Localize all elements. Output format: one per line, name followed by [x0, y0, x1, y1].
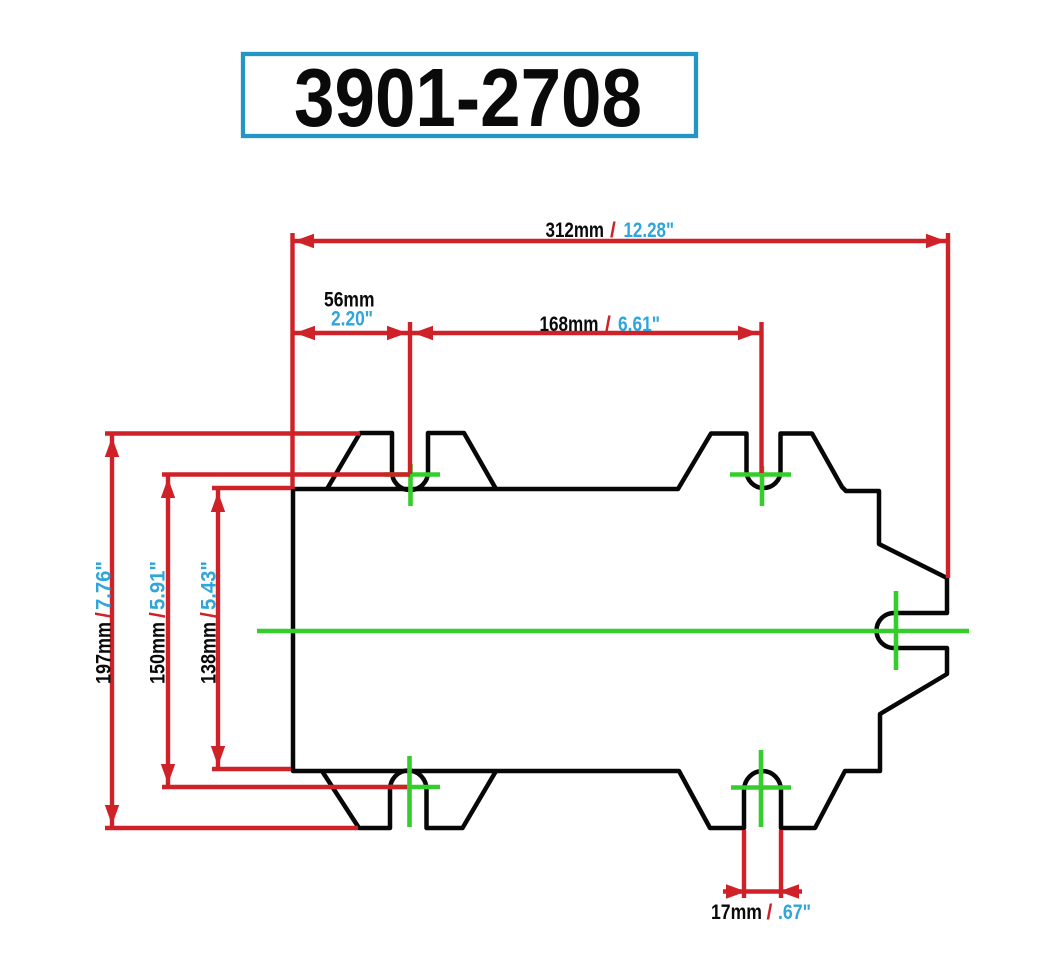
arrow 197 top: [105, 437, 119, 457]
svg-text:/: /: [93, 612, 116, 618]
150 dim vertical: [166, 475, 170, 788]
197 bottom extension: [105, 826, 358, 830]
red arrowheads: [105, 234, 946, 899]
arrow 197 bottom: [105, 805, 119, 825]
dim label 312mm / 12.28": [546, 219, 675, 242]
title box: [243, 54, 696, 136]
dim label 138mm / 5.43" (rotated): [198, 561, 221, 684]
arrow 56 left: [295, 326, 315, 340]
312 left extension vertical: [290, 233, 294, 489]
arrow 168 left: [413, 326, 433, 340]
green cross right notch: [894, 591, 899, 670]
312 dim line: [293, 239, 949, 243]
svg-text:168mm: 168mm: [540, 313, 599, 336]
dim label 197mm / 7.76" (rotated): [93, 561, 116, 684]
svg-text:138mm: 138mm: [198, 622, 221, 684]
svg-text:17mm: 17mm: [711, 901, 762, 924]
17 left extension vertical: [742, 830, 746, 898]
arrow 312 right: [926, 234, 946, 248]
arrow 138 top: [211, 492, 225, 512]
svg-text:2.20": 2.20": [331, 308, 373, 331]
arrow 138 bottom: [211, 746, 225, 766]
svg-text:/: /: [767, 901, 773, 924]
svg-text:.67": .67": [778, 901, 811, 924]
svg-text:150mm: 150mm: [147, 622, 170, 684]
138 top extension: [212, 486, 291, 490]
arrow 168 right: [738, 326, 758, 340]
top-left tab pair: [327, 433, 496, 490]
17 right extension vertical: [779, 830, 783, 898]
56 right extension vertical: [408, 322, 412, 474]
138 bottom extension: [212, 767, 291, 771]
56/168 dim line: [293, 331, 762, 335]
svg-text:312mm: 312mm: [546, 219, 605, 242]
197 top extension: [105, 431, 360, 435]
svg-text:12.28": 12.28": [624, 219, 675, 242]
dim label 150mm / 5.91" (rotated): [147, 561, 170, 684]
arrow 17 right: [779, 884, 799, 898]
138 dim vertical: [216, 488, 220, 769]
arrow 150 bottom: [161, 764, 175, 784]
arrow 312 left: [294, 234, 314, 248]
svg-text:/: /: [610, 219, 616, 242]
arrow 150 top: [161, 478, 175, 498]
green center line: [257, 629, 969, 634]
green cross bottom-right: [731, 750, 791, 827]
svg-text:/: /: [198, 612, 221, 618]
17 dim line: [723, 889, 802, 893]
168 right extension vertical: [759, 322, 763, 473]
svg-text:6.61": 6.61": [618, 313, 660, 336]
green cross top-right: [730, 466, 791, 506]
dim label 56mm 2.20": [324, 289, 375, 331]
150 bottom extension: [162, 785, 407, 789]
svg-text:/: /: [605, 313, 611, 336]
svg-text:5.91": 5.91": [147, 561, 170, 610]
green cross bottom-left: [390, 756, 440, 827]
dim label 168mm / 6.61": [540, 313, 661, 336]
svg-text:7.76": 7.76": [93, 561, 116, 610]
bottom-left tab pair: [322, 771, 496, 829]
svg-text:5.43": 5.43": [198, 561, 221, 610]
green cross top-left: [384, 464, 440, 506]
arrow 56 right: [387, 326, 407, 340]
svg-text:197mm: 197mm: [93, 622, 116, 684]
part outline main: [293, 434, 947, 829]
arrow 17 left: [726, 884, 746, 898]
svg-text:3901-2708: 3901-2708: [294, 51, 642, 144]
150 top extension: [162, 472, 410, 476]
red dimension lines: [105, 233, 948, 898]
dim label 17mm / .67": [711, 901, 811, 924]
svg-text:/: /: [147, 612, 170, 618]
312 right extension vertical: [946, 233, 950, 578]
197 dim vertical: [110, 434, 114, 829]
